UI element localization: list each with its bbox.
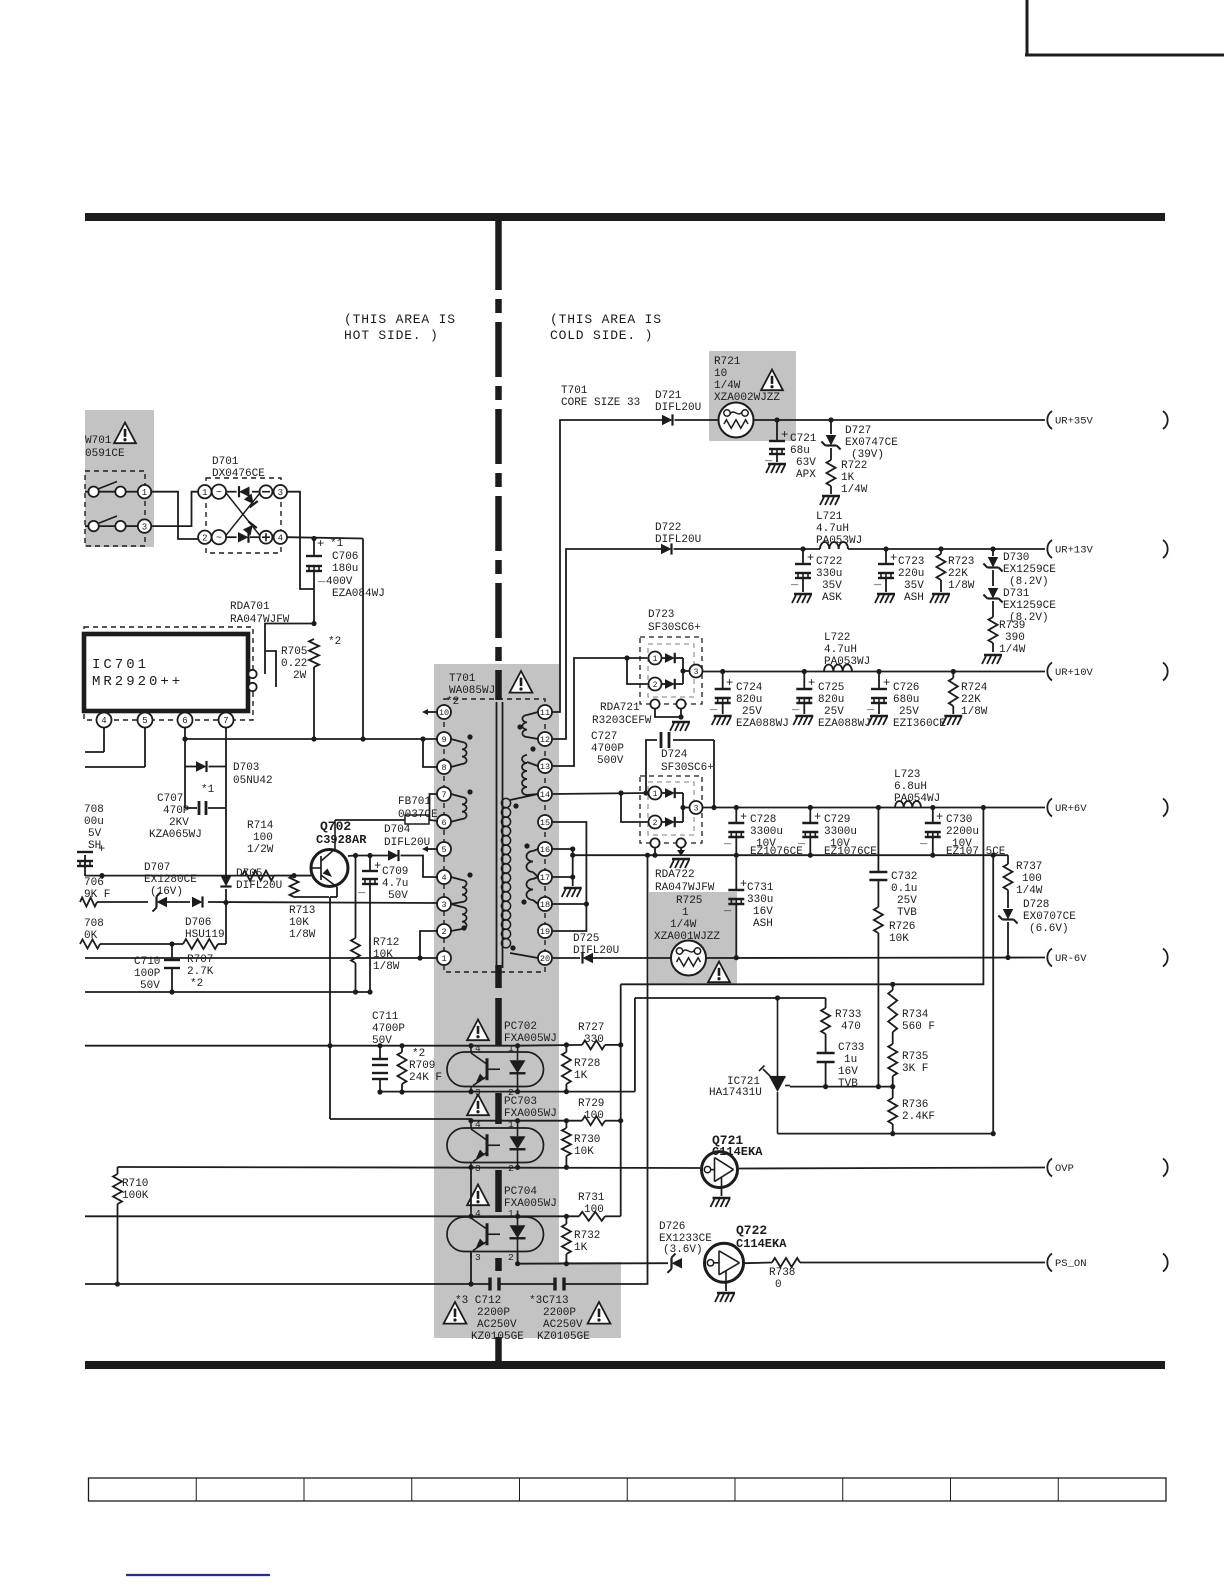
svg-text:C729: C729 [824, 814, 850, 826]
ground C723 [875, 594, 895, 603]
warning triangle R725 [708, 962, 730, 983]
svg-text:*3 C712: *3 C712 [455, 1295, 501, 1307]
svg-text:*1: *1 [201, 784, 215, 796]
capacitor C713 label [529, 1295, 590, 1343]
svg-text:+: + [726, 676, 733, 690]
svg-text:3: 3 [142, 522, 147, 532]
svg-text:400V: 400V [326, 576, 353, 588]
svg-text:RDA721: RDA721 [600, 702, 640, 714]
svg-text:18: 18 [540, 900, 550, 910]
svg-text:_: _ [723, 833, 732, 847]
svg-text:D723: D723 [648, 609, 674, 621]
svg-text:R3203CEFW: R3203CEFW [592, 715, 652, 727]
signature line [126, 1574, 270, 1576]
diode D704 [384, 824, 439, 877]
svg-text:PS_ON: PS_ON [1055, 1258, 1087, 1270]
svg-text:8: 8 [441, 763, 446, 773]
IC701 pin 6 [178, 713, 193, 809]
optocoupler PC703 [447, 1119, 544, 1174]
svg-text:9K F: 9K F [84, 889, 110, 901]
svg-text:*3C713: *3C713 [529, 1295, 569, 1307]
resistor R707 [183, 939, 218, 990]
svg-text:PA053WJ: PA053WJ [824, 656, 870, 668]
wire Q722 collector [744, 1262, 772, 1265]
svg-text:C733: C733 [838, 1042, 864, 1054]
svg-text:470P: 470P [163, 805, 190, 817]
svg-text:6.8uH: 6.8uH [894, 781, 927, 793]
svg-text:EX1259CE: EX1259CE [1003, 600, 1056, 612]
svg-text:24K F: 24K F [409, 1072, 442, 1084]
warning triangle R721 [761, 370, 783, 391]
node C725 [802, 669, 807, 674]
svg-text:0.22: 0.22 [281, 658, 307, 670]
connector arc UR+13V [1163, 540, 1168, 558]
svg-text:C709: C709 [382, 866, 408, 878]
svg-text:EZA088WJ: EZA088WJ [736, 718, 789, 730]
svg-text:1: 1 [508, 1043, 514, 1054]
ground RDA721 [670, 722, 690, 731]
svg-text:1/8W: 1/8W [948, 580, 975, 592]
svg-text:R705: R705 [281, 646, 307, 658]
diode D722 [655, 522, 820, 555]
capacitor C723 [873, 549, 924, 604]
svg-text:C730: C730 [946, 814, 972, 826]
svg-text:25V: 25V [824, 706, 844, 718]
node R723 [938, 546, 943, 551]
ground C721 [766, 464, 786, 473]
warning triangle PC704 [467, 1185, 489, 1206]
svg-text:19: 19 [540, 927, 550, 937]
wire opto feedback A [621, 805, 986, 987]
optocoupler PC702 label [504, 1021, 557, 1045]
svg-text:470: 470 [841, 1021, 861, 1033]
IC IC721 (TL431) [759, 998, 790, 1134]
revision table [89, 1478, 1167, 1501]
svg-text:C707: C707 [157, 793, 183, 805]
svg-text:DIFL20U: DIFL20U [573, 945, 619, 957]
terminal UR+6V [1047, 799, 1087, 817]
wire D701-3 to C706 low node [287, 492, 314, 589]
capacitor C725 [791, 672, 871, 731]
node D730 [990, 546, 995, 551]
transformer pins 1-10 [437, 705, 451, 965]
wire Y-cap row left [85, 1283, 490, 1285]
wire PC704 pin3 drop [468, 1253, 473, 1287]
capacitor C724 [709, 672, 789, 731]
bottom border bar [85, 1361, 1165, 1369]
warning triangle PC703 [467, 1095, 489, 1116]
svg-text:UR-6V: UR-6V [1055, 953, 1087, 965]
shaded box R725 [649, 892, 737, 985]
svg-text:C731: C731 [747, 882, 774, 894]
svg-text:R712: R712 [373, 937, 399, 949]
wire D725 to R725 [593, 957, 671, 959]
svg-text:1/8W: 1/8W [373, 961, 400, 973]
wire gnd-return rail [85, 989, 373, 994]
transistor Q702 label [316, 819, 367, 847]
svg-text:100K: 100K [122, 1190, 149, 1202]
svg-text:ASH: ASH [904, 592, 924, 604]
svg-text:50V: 50V [388, 890, 408, 902]
svg-text:PA054WJ: PA054WJ [894, 793, 940, 805]
svg-text:RA047WJFW: RA047WJFW [655, 882, 715, 894]
resistor R730 [562, 1121, 601, 1167]
svg-text:560 F: 560 F [902, 1021, 935, 1033]
svg-text:DIFL20U: DIFL20U [384, 837, 430, 849]
capacitor C721 [764, 420, 817, 481]
wire Q702 collector right [348, 853, 388, 858]
svg-text:L722: L722 [824, 632, 850, 644]
svg-text:HOT SIDE. ): HOT SIDE. ) [344, 328, 439, 343]
svg-text:R734: R734 [902, 1009, 929, 1021]
label T701 core size [561, 385, 640, 409]
terminal OVP [1047, 1159, 1074, 1177]
svg-text:2200P: 2200P [543, 1307, 576, 1319]
secondary main winding [501, 794, 538, 958]
svg-text:D722: D722 [655, 522, 681, 534]
capacitor C729 [797, 808, 877, 859]
dual diode D723 label [648, 609, 701, 634]
svg-text:UR+35V: UR+35V [1055, 416, 1094, 428]
wire rail2 down right [992, 855, 994, 1133]
capacitor C709 [357, 856, 408, 993]
inductor L722 [824, 632, 870, 672]
warning triangle C712 [444, 1302, 467, 1324]
wire OVP [739, 1168, 1045, 1169]
svg-text:HA17431U: HA17431U [709, 1087, 762, 1099]
wire pin15/18/19 tie [552, 822, 589, 931]
svg-text:+: + [883, 676, 890, 690]
svg-text:C726: C726 [893, 682, 919, 694]
svg-text:100: 100 [584, 1204, 604, 1216]
svg-text:PA053WJ: PA053WJ [816, 535, 862, 547]
svg-text:(6.6V): (6.6V) [1029, 923, 1069, 935]
svg-text:+: + [317, 537, 324, 551]
svg-text:R725: R725 [676, 895, 702, 907]
svg-text:4.7uH: 4.7uH [824, 644, 857, 656]
wire PC704 riser [470, 1167, 472, 1210]
svg-text:C711: C711 [372, 1011, 399, 1023]
svg-text:IC701: IC701 [92, 657, 149, 673]
warning triangle C713 [588, 1302, 611, 1324]
svg-text:2KV: 2KV [169, 817, 189, 829]
node pin6 wire [182, 736, 187, 741]
resistor R729 [578, 1098, 623, 1125]
svg-text:4700P: 4700P [591, 743, 624, 755]
svg-text:3K F: 3K F [902, 1063, 928, 1075]
svg-text:2W: 2W [293, 670, 307, 682]
svg-text:ASH: ASH [753, 918, 773, 930]
node C722 [800, 546, 805, 551]
svg-text:820u: 820u [736, 694, 762, 706]
node R724 [951, 669, 956, 674]
svg-text:R722: R722 [841, 460, 867, 472]
node base [291, 873, 296, 878]
wire D724 input 2 [621, 793, 648, 822]
wire D723 input 2 [627, 658, 648, 684]
resistor R733 [821, 998, 861, 1052]
label *1 (C707) [201, 784, 215, 796]
node C731 bottom [734, 955, 739, 960]
svg-text:L721: L721 [816, 511, 843, 523]
wire IC701 pin4 to edge [85, 751, 104, 753]
wire PC704 top row [85, 1214, 579, 1219]
svg-text:2: 2 [653, 819, 658, 828]
node C730 [930, 805, 935, 810]
resistor R722 [827, 460, 868, 496]
svg-text:12: 12 [540, 735, 550, 745]
wire 0V to R737 [1007, 855, 1009, 864]
svg-text:EZA088WJ: EZA088WJ [818, 718, 871, 730]
optocoupler PC703 label [504, 1096, 557, 1120]
svg-text:+: + [808, 676, 815, 690]
node D728 bottom [1005, 955, 1010, 960]
svg-text:EZ107 5CE: EZ107 5CE [946, 846, 1006, 858]
connector arc UR+6V [1163, 799, 1168, 817]
svg-text:XZA001WJZZ: XZA001WJZZ [654, 931, 720, 943]
svg-text:16V: 16V [753, 906, 773, 918]
node D727 [828, 417, 833, 422]
svg-text:*2: *2 [190, 978, 203, 990]
svg-text:500V: 500V [597, 755, 624, 767]
svg-text:4: 4 [441, 873, 446, 883]
wire Q702 collector top [335, 819, 405, 821]
diode bridge D701 label [212, 456, 265, 480]
shaded box W701 [85, 410, 154, 547]
svg-text:2200P: 2200P [477, 1307, 510, 1319]
svg-text:0: 0 [775, 1279, 782, 1291]
svg-text:100: 100 [584, 1110, 604, 1122]
svg-text:R713: R713 [289, 905, 315, 917]
resistor R713 [289, 876, 329, 941]
svg-text:14: 14 [540, 790, 550, 800]
transistor Q722 label [736, 1223, 787, 1251]
svg-text:OVP: OVP [1055, 1163, 1074, 1175]
svg-text:R731: R731 [578, 1192, 605, 1204]
svg-text:390: 390 [1005, 632, 1025, 644]
ground RDA722 [670, 859, 690, 868]
secondary winding 13-14 [522, 746, 538, 795]
svg-text:1/2W: 1/2W [247, 844, 274, 856]
wire PC702 bottom row [380, 1089, 635, 1094]
resistor R732 [562, 1216, 601, 1263]
svg-text:16: 16 [540, 845, 550, 855]
svg-text:11: 11 [540, 708, 550, 718]
zener D730 [983, 549, 1056, 588]
svg-text:C114EKA: C114EKA [736, 1237, 787, 1251]
svg-text:708: 708 [84, 804, 104, 816]
ground R739 [982, 655, 1002, 664]
wire D701-4 to C706/R705 node [287, 536, 363, 541]
rda721 pins [650, 699, 685, 719]
ground Q722 [715, 1282, 735, 1302]
resistor network RDA721 label [592, 702, 652, 727]
svg-text:UR+10V: UR+10V [1055, 667, 1094, 679]
svg-text:2200u: 2200u [946, 826, 979, 838]
diode bridge D701 [198, 478, 287, 553]
svg-text:+: + [807, 551, 814, 565]
ground C726 [868, 716, 888, 725]
node C706/RDA701 [311, 621, 316, 626]
svg-text:+: + [781, 428, 788, 442]
capacitor C708 (cut) [77, 804, 105, 876]
page corner frame top-right [1025, 0, 1224, 55]
svg-text:7: 7 [223, 716, 228, 726]
svg-text:9: 9 [441, 735, 446, 745]
svg-text:25V: 25V [899, 706, 919, 718]
svg-text:EX1259CE: EX1259CE [1003, 564, 1056, 576]
resistor R738 [769, 1258, 1045, 1291]
svg-text:+: + [740, 810, 747, 824]
label cold side [550, 312, 662, 343]
ground secondary [562, 877, 582, 897]
wire pin6 row to T701 pin9 [185, 736, 439, 741]
svg-text:1: 1 [508, 1208, 514, 1219]
IC701 pin 5 [138, 713, 153, 768]
diode D706 [185, 896, 225, 941]
svg-text:C725: C725 [818, 682, 844, 694]
shaded box R721 [709, 351, 796, 441]
resistor R705 [281, 636, 341, 739]
dual diode D724 label [661, 749, 714, 774]
wire bridge output right rail [362, 539, 364, 740]
svg-text:4: 4 [475, 1208, 481, 1219]
zener D731 [983, 588, 1056, 624]
capacitor C733 [817, 1042, 865, 1090]
svg-text:1: 1 [142, 488, 147, 498]
svg-text:KZ0105GE: KZ0105GE [537, 1331, 590, 1343]
svg-text:708: 708 [84, 918, 104, 930]
diode D721 [655, 390, 719, 426]
svg-text:_: _ [873, 574, 882, 588]
svg-text:68u: 68u [790, 445, 810, 457]
warning triangle PC702 [467, 1020, 489, 1041]
svg-text:R710: R710 [122, 1178, 148, 1190]
wire W701-3 to D701-1 [151, 492, 198, 526]
svg-text:AC250V: AC250V [477, 1319, 517, 1331]
primary winding 3-2 [451, 904, 467, 931]
transformer pin10 stub [422, 709, 437, 715]
svg-text:_: _ [790, 574, 799, 588]
svg-text:+: + [98, 842, 105, 856]
svg-text:5: 5 [441, 845, 446, 855]
svg-text:R724: R724 [961, 682, 988, 694]
ground Q721 [711, 1188, 731, 1207]
resistor R734 [888, 984, 935, 1044]
svg-text:100: 100 [253, 832, 273, 844]
svg-text:100: 100 [1022, 873, 1042, 885]
svg-text:R721: R721 [714, 356, 741, 368]
capacitor C732 [869, 805, 917, 919]
svg-text:~: ~ [216, 488, 222, 499]
wire T701 pin8 jog [423, 739, 439, 767]
ferrite bead FB701 [398, 796, 439, 824]
connector arc OVP [1163, 1159, 1168, 1177]
capacitor C706 [306, 537, 385, 623]
svg-text:330u: 330u [747, 894, 773, 906]
svg-text:R726: R726 [889, 921, 915, 933]
svg-text:1/4W: 1/4W [714, 380, 741, 392]
ground R723 [930, 594, 950, 603]
svg-text:5V: 5V [88, 828, 102, 840]
svg-text:50V: 50V [140, 980, 160, 992]
svg-text:0037CE: 0037CE [398, 809, 438, 821]
node C728 [734, 805, 739, 810]
svg-text:D707: D707 [144, 862, 170, 874]
svg-text:R714: R714 [247, 820, 274, 832]
svg-text:R728: R728 [574, 1058, 600, 1070]
svg-text:4700P: 4700P [372, 1023, 405, 1035]
svg-text:R739: R739 [999, 620, 1025, 632]
connector arc UR-6V [1163, 949, 1168, 967]
resistor R706 (cut) [80, 877, 110, 907]
wire R707 row [100, 941, 226, 946]
optocoupler PC704 [447, 1208, 544, 1263]
resistor R724 [949, 672, 988, 719]
switch W701 body [85, 471, 151, 546]
svg-text:63V: 63V [796, 457, 816, 469]
svg-text:W701: W701 [85, 435, 112, 447]
svg-text:AC250V: AC250V [543, 1319, 583, 1331]
svg-text:3300u: 3300u [750, 826, 783, 838]
diode D726 label [659, 1221, 712, 1256]
svg-text:1: 1 [653, 655, 658, 664]
svg-text:ASK: ASK [822, 592, 842, 604]
svg-text:3: 3 [694, 668, 699, 677]
svg-text:_: _ [866, 699, 875, 713]
svg-text:TVB: TVB [897, 907, 917, 919]
capacitor C730 [919, 808, 1006, 859]
svg-text:PC702: PC702 [504, 1021, 537, 1033]
resistor R714 [242, 820, 311, 881]
svg-text:DIFL20U: DIFL20U [655, 402, 701, 414]
svg-text:1K: 1K [574, 1070, 588, 1082]
svg-text:2: 2 [653, 681, 658, 690]
svg-text:1K: 1K [841, 472, 855, 484]
wire D724 out to +6V rail [703, 740, 1046, 810]
svg-text:DIFL20U: DIFL20U [655, 534, 701, 546]
svg-text:330: 330 [584, 1034, 604, 1046]
svg-text:R733: R733 [835, 1009, 861, 1021]
wire opto output riser [620, 984, 622, 1216]
shaded hot/cold barrier band (transformer/optocoupler column) [434, 664, 621, 1338]
wire D723 out to +10V rail [703, 671, 1046, 673]
resistor R727 [578, 1022, 623, 1049]
svg-text:_: _ [723, 900, 732, 914]
svg-text:R736: R736 [902, 1099, 928, 1111]
svg-text:10K: 10K [574, 1146, 594, 1158]
IC IC701 [84, 627, 257, 720]
zener D727 [821, 420, 898, 461]
resistor R737 [1004, 861, 1043, 908]
svg-text:+: + [374, 859, 381, 873]
svg-text:17: 17 [540, 873, 550, 883]
transformer T701 outline [444, 699, 545, 972]
svg-text:_: _ [791, 699, 800, 713]
svg-text:C706: C706 [332, 551, 358, 563]
node C721 [774, 417, 779, 422]
wire 0V rail to Y-cap C713 [565, 855, 648, 1284]
svg-text:C724: C724 [736, 682, 763, 694]
svg-text:13: 13 [540, 762, 550, 772]
wire pin20 out [552, 957, 580, 959]
dual diode D723 [640, 637, 703, 704]
svg-text:_: _ [709, 699, 718, 713]
svg-text:1/8W: 1/8W [961, 706, 988, 718]
svg-text:+: + [890, 551, 897, 565]
svg-text:D727: D727 [845, 425, 871, 437]
wire zener row [97, 900, 439, 905]
